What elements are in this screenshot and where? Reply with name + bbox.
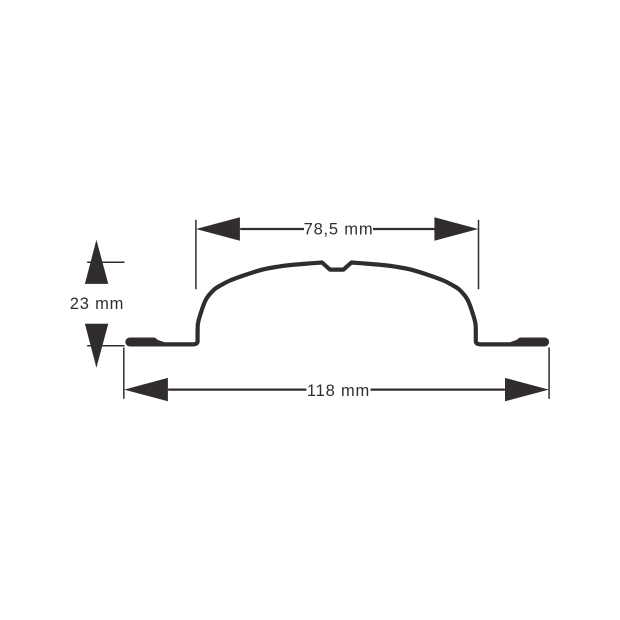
svg-text:78,5 mm: 78,5 mm bbox=[304, 221, 374, 239]
bottom dimension line left segment bbox=[168, 389, 306, 391]
svg-text:118 mm: 118 mm bbox=[307, 382, 370, 400]
bottom dimension arrow left bbox=[124, 378, 168, 401]
svg-text:23 mm: 23 mm bbox=[70, 295, 124, 313]
left dimension arrow up bbox=[85, 240, 108, 284]
top dimension arrow left bbox=[196, 217, 240, 240]
profile outline (cross-section of panel) bbox=[154, 263, 521, 345]
left dimension arrow down bbox=[85, 324, 108, 368]
left bead-to-line wedge bbox=[152, 338, 165, 347]
left dimension top tick bbox=[87, 261, 124, 263]
bottom dimension arrow right bbox=[505, 378, 549, 401]
bottom dimension extension line left bbox=[123, 348, 125, 399]
bottom dimension line right segment bbox=[371, 389, 505, 391]
top dimension arrow right bbox=[434, 217, 478, 240]
right hem bead bbox=[521, 338, 545, 347]
left dimension bottom tick bbox=[87, 345, 124, 347]
left hem bead bbox=[130, 338, 154, 347]
right bead-to-line wedge bbox=[510, 338, 523, 347]
top dimension extension line right bbox=[478, 220, 480, 289]
top dimension line left segment bbox=[240, 228, 304, 230]
top dimension extension line left bbox=[195, 220, 197, 289]
top dimension line right segment bbox=[373, 228, 435, 230]
bottom dimension extension line right bbox=[548, 348, 550, 399]
